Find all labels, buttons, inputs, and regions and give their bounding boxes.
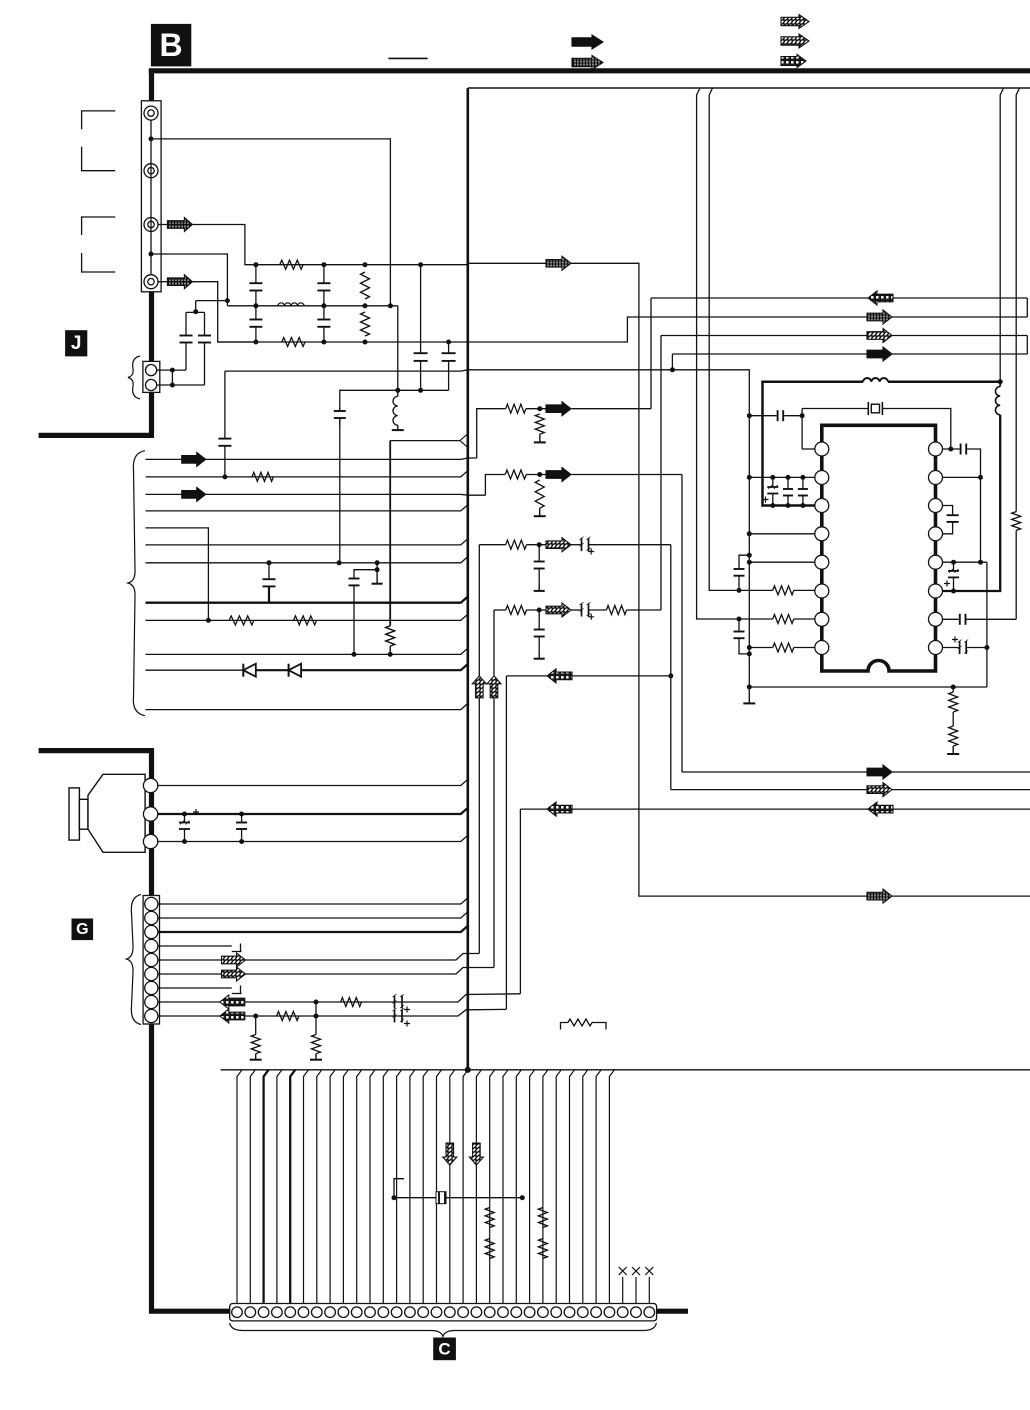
node rail749 d <box>747 553 751 557</box>
connector G pin 9 <box>145 1009 158 1022</box>
brace B <box>128 451 145 716</box>
connector G pin 4 <box>145 939 158 952</box>
node L2 b <box>786 475 790 479</box>
arrow rowA left <box>868 291 893 305</box>
resistor w9 second <box>294 616 317 625</box>
bracket mark lower <box>82 217 116 235</box>
terminator w7 <box>376 570 378 584</box>
wire rail749 <box>748 371 750 697</box>
connector SP pin 1 <box>143 778 157 792</box>
connector CN-B pin 2 <box>144 164 158 178</box>
arrow G5 hatch <box>222 953 246 967</box>
wire cap row L1 <box>749 415 776 417</box>
wire C13 <box>397 1070 402 1304</box>
wire C30 stub <box>622 1277 624 1304</box>
wire C21 <box>503 1070 508 1304</box>
wire box vert 1016 lower <box>1015 530 1017 619</box>
wire w4 <box>146 505 468 511</box>
node tap1 on strip <box>149 137 153 141</box>
wire pin R4 loop <box>943 522 953 534</box>
capacitor row1-row2 x256 <box>255 265 257 284</box>
diode D2 <box>288 664 290 677</box>
wire G6 <box>158 973 222 975</box>
resistor row1-row2 x365 <box>361 272 370 299</box>
node row3 b <box>322 340 326 344</box>
node row676 <box>669 674 673 678</box>
capacitor group4 el <box>571 609 581 611</box>
resistor below IC b <box>952 712 954 726</box>
wire rowC tail <box>892 335 1027 337</box>
capacitor G8 el <box>394 996 396 1009</box>
svg-text:C: C <box>438 1339 450 1358</box>
node L7 cap <box>737 617 741 621</box>
wire w6 <box>146 539 468 545</box>
node group3 <box>537 543 541 547</box>
wire rowD <box>672 353 867 355</box>
node SP3 a <box>183 840 187 844</box>
capacitor row1-row2 x324 <box>323 265 325 284</box>
wire row809 mid <box>572 808 868 810</box>
wire pin R8 row <box>943 647 959 649</box>
arrow W4 solid <box>546 468 571 482</box>
wire pin L8 lead <box>794 647 815 649</box>
crystal X1 <box>867 402 869 415</box>
resistor L7 <box>773 615 794 624</box>
node J2 <box>170 383 174 387</box>
resistor W4 shunt <box>535 480 544 508</box>
wire vert651 <box>650 298 652 409</box>
terminator below IC <box>952 746 954 754</box>
wire SP3 <box>158 835 468 841</box>
wire pin L4 row <box>749 533 815 535</box>
wire riser G6 upper <box>493 610 495 676</box>
wire speaker pins link <box>150 774 152 854</box>
wire riser G5 upper <box>478 545 480 676</box>
no-connect X C32 <box>645 1267 653 1275</box>
wire pin L8 row <box>749 647 772 649</box>
arrow rowD solid <box>867 347 892 361</box>
node L6 cap <box>737 588 741 592</box>
wire tap1 to filter <box>151 139 390 306</box>
wire pin L7 row <box>738 618 773 620</box>
node y390 cap <box>419 388 423 392</box>
wire IC thick path <box>763 382 864 506</box>
terminator group4 <box>538 653 540 659</box>
wire w3 <box>146 493 486 496</box>
arrow row809 left b <box>868 802 893 816</box>
node R1 <box>949 447 953 451</box>
wire pin R1 row <box>943 448 960 450</box>
connector J pin 2 <box>146 379 157 390</box>
resistor W3 shunt <box>535 414 544 434</box>
node R8 vert <box>985 646 989 650</box>
wire L5 cap branch <box>739 555 749 569</box>
resistor row2-row3 x365 <box>361 312 370 336</box>
node G9 b <box>314 1014 318 1018</box>
frame left thick border lower <box>149 748 154 1314</box>
wire w1 <box>146 458 477 459</box>
resistor below IC a <box>952 687 954 692</box>
wire W3 mid <box>526 408 546 410</box>
IC pin R3 <box>929 499 943 513</box>
wire w11 thin part <box>146 669 244 671</box>
connector SP pin 3 <box>143 834 157 848</box>
wire row676 tail <box>572 675 671 677</box>
legend diagonal-hatch arrow 2 <box>781 34 809 48</box>
capacitor L2 b <box>787 477 789 489</box>
wire below IC <box>749 686 987 688</box>
capacitor C link <box>436 1192 446 1204</box>
wire W4 mid <box>526 474 546 476</box>
node row1 b <box>322 263 326 267</box>
connector J pin 1 <box>146 365 157 376</box>
terminator coil <box>397 425 399 430</box>
wire Jcap bar <box>186 311 205 313</box>
wire C5 <box>290 1070 295 1304</box>
wire L1 vertical <box>801 409 803 450</box>
wire pin R5 row <box>943 561 987 563</box>
IC pin R7 <box>929 612 943 626</box>
node w7 c <box>375 561 379 565</box>
connector G pin 2 <box>145 911 158 924</box>
IC pin R2 <box>929 471 943 485</box>
wire G1 <box>158 898 468 904</box>
speaker magnet <box>69 788 79 840</box>
resistor row3 <box>282 338 305 347</box>
wire y390 link <box>340 390 398 411</box>
wire row896 tail <box>892 895 1030 897</box>
wire tap2 to row2 <box>151 254 227 306</box>
capacitor L56 <box>734 568 745 570</box>
wire J link <box>171 370 173 385</box>
wire C20 <box>490 1070 495 1304</box>
wire C11 <box>370 1070 375 1304</box>
node R6 cap <box>952 589 956 593</box>
wire pin R7 tail <box>967 618 1017 620</box>
legend vertical-hatch arrow <box>572 56 603 70</box>
wire w11 bold <box>243 664 467 670</box>
capacitor R1 <box>960 444 962 455</box>
IC pin L3 <box>815 499 829 513</box>
capacitor D-w2 <box>224 371 226 439</box>
IC pin L4 <box>815 527 829 541</box>
label J <box>66 331 87 356</box>
arrow rowB hatch <box>867 310 892 324</box>
node tap1 row2 <box>388 304 392 308</box>
connector CN-B pin 4 <box>144 275 158 289</box>
wire group4 row <box>494 609 506 611</box>
speaker cone <box>88 774 145 852</box>
arrow pin3 hatch <box>167 218 192 232</box>
wire C10 <box>357 1070 362 1304</box>
wire U-turn AB <box>1026 298 1028 317</box>
inductor vert x398 <box>393 396 398 425</box>
node L3 c <box>801 504 805 508</box>
brace G <box>127 895 142 1025</box>
wire C17 <box>450 1070 455 1304</box>
node rail749 h <box>747 685 751 689</box>
wire G4 stub <box>158 945 232 947</box>
arrow group3 hatch <box>546 538 571 552</box>
wire w7 <box>146 557 468 563</box>
capacitor SP el <box>184 814 186 823</box>
bus entry triangle <box>460 434 467 447</box>
capacitor group3 el <box>571 544 581 546</box>
node SP2 b <box>240 812 244 816</box>
legend diagonal-hatch arrow 1 <box>781 15 809 29</box>
connector CN-B pin 3 <box>144 218 158 232</box>
wire row3 <box>218 341 468 343</box>
connector G body <box>143 896 159 1025</box>
connector SP pin 2 <box>143 807 157 821</box>
capacitor x420 col <box>420 265 422 354</box>
wire vert682 <box>681 475 683 773</box>
node w9 a <box>206 618 210 622</box>
wire pin L2 row <box>749 476 815 478</box>
node row2 b <box>322 304 326 308</box>
node row2 c <box>363 304 367 308</box>
jumper component <box>561 1023 569 1030</box>
inductor row2 <box>278 303 304 306</box>
node G8 shunt <box>314 1000 318 1004</box>
wire pin L5 row <box>749 561 815 563</box>
node tap2 on strip <box>149 252 153 256</box>
node w7 a <box>267 561 271 565</box>
no-connect X C31 <box>632 1267 640 1275</box>
node L1 vert <box>800 414 804 418</box>
capacitor R56 el <box>953 562 955 571</box>
wire box vert 709 <box>709 88 738 590</box>
terminator G8 shunt <box>315 1054 317 1060</box>
node rail749 c <box>747 532 751 536</box>
node tap2 J-branch <box>225 299 229 303</box>
inductor vert x1000 <box>995 387 1000 415</box>
arrow rowC hatch <box>867 329 892 343</box>
frame top thick border <box>149 68 1030 73</box>
resistor W3 <box>506 404 526 413</box>
svg-text:B: B <box>160 27 183 63</box>
capacitor row2-row3 x256 <box>255 306 257 320</box>
node row1 a <box>254 263 258 267</box>
connector G pin 6 <box>145 967 158 980</box>
capacitor J2 <box>204 312 206 335</box>
IC pin L6 <box>815 584 829 598</box>
wire pin R7 row <box>943 618 959 620</box>
wire U-turn CD <box>1026 336 1028 355</box>
wire C28 <box>596 1070 601 1304</box>
wire strip pins link <box>150 120 152 275</box>
wire vert987 <box>986 562 988 687</box>
brace C <box>230 1323 657 1336</box>
wire W4 tail <box>572 474 682 476</box>
connector G pin 1 <box>145 897 158 910</box>
wire row676 <box>506 675 547 677</box>
frame bottom thick border right of connector <box>657 1309 688 1314</box>
resistor net390 <box>386 626 395 646</box>
wire G5 tail <box>246 954 480 961</box>
node w2 cap <box>223 475 227 479</box>
svg-text:J: J <box>71 333 82 354</box>
IC pin L7 <box>815 612 829 626</box>
arrow riser G6 up <box>487 676 501 698</box>
wire C18 <box>463 1070 468 1304</box>
wire pin L6 row <box>738 589 773 591</box>
diode D1 <box>242 664 244 677</box>
wire rowD tail <box>891 353 1027 355</box>
wire W2 right <box>468 317 867 342</box>
node L2 c <box>801 475 805 479</box>
wire SP1 <box>158 779 468 785</box>
wire pin4 to row3 <box>158 282 256 342</box>
arrow W3 solid <box>546 402 571 416</box>
wire C14 <box>410 1070 415 1304</box>
wire C25 <box>556 1070 561 1304</box>
wire bottom rail <box>221 1069 1030 1071</box>
wire C16 <box>437 1070 442 1304</box>
wire SP2 bold <box>158 808 468 814</box>
wire pin R2 row <box>943 476 981 478</box>
node thick coil <box>998 380 1002 384</box>
wire w12 <box>146 703 468 709</box>
stub C link <box>394 1179 404 1198</box>
wire box vert 696 <box>697 88 738 619</box>
wire C26 <box>570 1070 575 1304</box>
wire G2 <box>158 912 468 918</box>
node row3 c <box>363 340 367 344</box>
capacitor CL1 <box>777 410 779 421</box>
node row1 d <box>419 263 423 267</box>
node J1 <box>170 368 174 372</box>
resistor L6 <box>773 586 794 595</box>
IC pin R8 <box>929 641 943 655</box>
IC pin R4 <box>929 527 943 541</box>
resistor x1016 <box>1012 512 1021 531</box>
node y390 coil <box>396 388 400 392</box>
node R5 b <box>979 560 983 564</box>
wire w2 <box>146 471 468 477</box>
wire net390 vertical <box>389 441 391 626</box>
arrow row809 left a <box>547 802 572 816</box>
connector G pin 7 <box>145 981 158 994</box>
capacitor L78 <box>738 619 740 632</box>
resistor Cw19 b <box>485 1239 494 1259</box>
capacitor L2 el <box>772 477 774 487</box>
resistor w2 <box>252 472 273 481</box>
frame left thick border upper <box>149 70 154 433</box>
terminator group3 <box>538 585 540 591</box>
IC pin R6 <box>929 584 943 598</box>
wire G9 tail <box>245 1009 506 1016</box>
wire rowB tail <box>892 316 1027 318</box>
node w7 stub <box>375 568 379 572</box>
wire G5 <box>158 959 222 961</box>
resistor G9 <box>277 1012 299 1021</box>
node C link b <box>520 1196 524 1200</box>
wire coil to R6 <box>936 415 1001 591</box>
node R2 <box>979 475 983 479</box>
node SP3 b <box>240 840 244 844</box>
wire C4 <box>277 1070 282 1304</box>
wire cap row L1 right <box>784 415 802 417</box>
wire group3 row <box>479 544 505 546</box>
wire IC thick path right <box>888 380 1000 383</box>
wire pin L7 lead <box>794 618 815 620</box>
wire W4 row <box>485 475 505 496</box>
wire C31 stub <box>635 1277 637 1304</box>
box top line <box>468 87 1030 89</box>
arrow w3 solid <box>182 487 206 501</box>
node group4 <box>537 608 541 612</box>
wire row1 <box>256 264 468 266</box>
bracket mark upper <box>82 111 116 129</box>
capacitor group4 shunt <box>538 610 540 630</box>
wire row809 <box>520 808 547 810</box>
wire C2 <box>250 1070 255 1304</box>
node L3 b <box>786 504 790 508</box>
wire group3 mid <box>527 544 547 546</box>
wire group4 tail <box>627 609 661 611</box>
terminator rail749 ground <box>748 697 750 703</box>
speaker pole <box>79 799 88 829</box>
inductor top <box>863 378 888 382</box>
wire D horizontal <box>225 370 673 371</box>
capacitor x448 col <box>448 342 450 353</box>
wire G8 tail <box>245 994 520 1002</box>
arrow C17 down <box>443 1143 457 1165</box>
capacitor R7 <box>959 614 961 625</box>
wire pin L1 <box>802 448 815 450</box>
arrow G8 left <box>220 995 245 1009</box>
wire box vert 1000 <box>1000 88 1003 382</box>
resistor group3 <box>506 540 527 549</box>
node w7 b <box>337 561 341 565</box>
arrow pin4 hatch <box>167 275 192 289</box>
IC pin L5 <box>815 555 829 569</box>
terminator W4 <box>539 508 541 516</box>
wire stub to cap <box>354 570 377 579</box>
terminator G9 shunt <box>255 1054 257 1060</box>
wire row772 tail <box>891 771 1030 773</box>
resistor Cw23 a <box>538 1208 547 1228</box>
wire C link <box>394 1197 522 1199</box>
wire C29 <box>609 1070 614 1304</box>
no-connect X C30 <box>619 1267 627 1275</box>
node L2 a <box>771 475 775 479</box>
wire G7 stub <box>158 987 232 989</box>
connector J body <box>143 361 160 392</box>
wire w9 <box>146 614 468 620</box>
wire C7 <box>317 1070 322 1304</box>
wire crystal row <box>802 408 868 410</box>
node rail749 e <box>747 560 751 564</box>
IC pin L8 <box>815 641 829 655</box>
wire row2 tail to coil <box>397 306 399 397</box>
node SP2 a <box>183 812 187 816</box>
wire C6 <box>304 1070 309 1304</box>
wire J2 <box>157 384 205 386</box>
node rail749 g <box>747 652 751 656</box>
wire D up to rowD <box>671 354 673 370</box>
wire riser G6 lower <box>493 698 495 967</box>
resistor Cw23 b <box>538 1239 547 1259</box>
wire net390 tail <box>389 646 391 654</box>
node row1 c <box>363 263 367 267</box>
wire C12 <box>383 1070 388 1304</box>
wire coil lead <box>999 382 1001 387</box>
wire C19 <box>476 1070 481 1304</box>
node L3 a <box>771 504 775 508</box>
connector CN-B pin 1 <box>144 106 158 120</box>
